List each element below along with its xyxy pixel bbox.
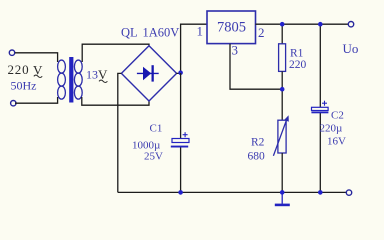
wire 7805 pin 2 output rail <box>256 23 349 25</box>
wire R1 bottom to node 3 <box>281 71 283 120</box>
node output/C2 junction <box>318 22 323 27</box>
svg-text:3: 3 <box>232 43 239 58</box>
svg-text:1: 1 <box>197 24 204 39</box>
svg-text:7805: 7805 <box>217 20 246 36</box>
svg-text:2: 2 <box>258 25 265 40</box>
capacitor C1 plus sign <box>183 132 188 137</box>
wire secondary bottom to bridge AC input <box>82 97 149 105</box>
node R2 / ground rail <box>280 190 285 195</box>
svg-text:220: 220 <box>8 62 30 77</box>
svg-text:QL: QL <box>121 26 138 40</box>
svg-text:C1: C1 <box>150 123 163 135</box>
ground symbol <box>281 192 283 203</box>
transformer T secondary winding <box>74 60 82 99</box>
transformer T primary winding <box>58 60 66 99</box>
wire input bottom to transformer primary <box>15 97 58 103</box>
svg-text:220µ: 220µ <box>320 123 343 135</box>
capacitor C2 <box>312 107 329 110</box>
svg-text:220: 220 <box>289 59 307 71</box>
wire output rail to C2 <box>319 24 321 192</box>
svg-text:680: 680 <box>248 151 266 163</box>
capacitor C2 plus sign <box>322 101 327 106</box>
svg-text:16V: 16V <box>327 136 346 148</box>
node C2 / ground rail <box>318 190 323 195</box>
resistor R1 <box>279 44 286 72</box>
svg-text:13: 13 <box>86 68 98 82</box>
wire ground rail (bottom) <box>118 191 346 193</box>
node bridge plus junction <box>178 70 183 75</box>
svg-text:1A60V: 1A60V <box>143 26 180 40</box>
svg-text:R2: R2 <box>251 137 265 149</box>
wire bridge minus (left corner) down to ground rail <box>118 73 122 192</box>
resistor R2 adjustable <box>278 120 286 153</box>
svg-text:50Hz: 50Hz <box>11 79 37 93</box>
terminal output Uo <box>348 22 353 27</box>
wire bridge plus down to C1 <box>180 73 182 192</box>
terminal output bottom-right <box>346 190 351 195</box>
node C1 / ground rail <box>178 190 183 195</box>
regulator U1 7805 box <box>207 11 256 44</box>
svg-text:Uo: Uo <box>343 41 359 56</box>
capacitor C1 <box>172 139 189 143</box>
wire output rail to R1 top <box>281 24 283 44</box>
bridge rectifier QL diamond <box>121 46 176 101</box>
wire bridge plus (right corner) up to 7805 pin 1 <box>176 24 207 73</box>
svg-text:R1: R1 <box>290 48 304 60</box>
wire 7805 pin 3 to R1/R2 junction <box>230 44 282 89</box>
wire input top to transformer primary <box>15 53 58 62</box>
node pin3/R1/R2 junction <box>280 87 285 92</box>
wire R2 bottom to ground rail <box>281 153 283 192</box>
svg-text:V: V <box>98 67 108 82</box>
wire secondary top to bridge AC input <box>82 44 149 62</box>
bridge rectifier QL diode symbol <box>137 65 159 81</box>
terminal input bottom-left <box>11 101 16 106</box>
transformer T core <box>69 57 73 103</box>
svg-text:25V: 25V <box>144 151 163 163</box>
svg-text:C2: C2 <box>331 110 344 122</box>
resistor R2 arrow <box>273 120 286 156</box>
node output/R1 junction <box>280 22 285 27</box>
terminal input top-left <box>9 50 14 55</box>
